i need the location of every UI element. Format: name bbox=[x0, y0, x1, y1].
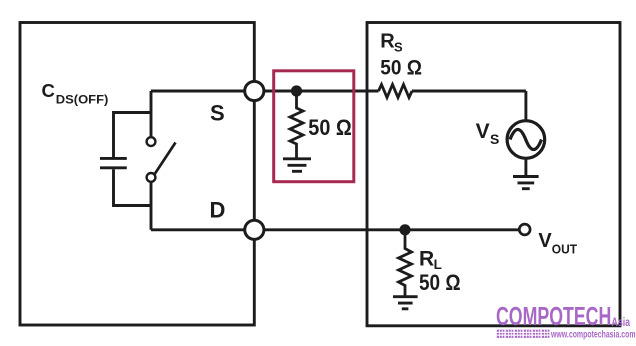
ground (RL) bbox=[393, 297, 418, 309]
wire: capacitor bottom branch bbox=[114, 169, 152, 205]
svg-text:www.compotechasia.com: www.compotechasia.com bbox=[550, 329, 635, 341]
capacitor C_DS(OFF) plates bbox=[100, 158, 127, 167]
resistor RS zigzag bbox=[379, 85, 413, 98]
wire: capacitor top branch bbox=[114, 113, 152, 158]
ground (shunt resistor) bbox=[283, 159, 311, 172]
wire bottom: D node to Vout bbox=[151, 228, 519, 231]
svg-text:R: R bbox=[419, 247, 434, 270]
svg-text:50 Ω: 50 Ω bbox=[308, 115, 352, 140]
wire: Vs vertical drop bbox=[524, 91, 527, 121]
source VS circle bbox=[507, 121, 545, 159]
svg-text:OUT: OUT bbox=[552, 241, 577, 256]
svg-text:S: S bbox=[210, 101, 225, 126]
left box (switch block outline) bbox=[20, 23, 254, 326]
svg-text:50 Ω: 50 Ω bbox=[419, 270, 461, 295]
switch Q1 bottom contact circle bbox=[147, 173, 156, 182]
node S terminal circle bbox=[245, 81, 264, 100]
node D terminal circle bbox=[245, 220, 264, 239]
switch Q1 lever bbox=[155, 143, 176, 175]
svg-text:50 Ω: 50 Ω bbox=[380, 56, 422, 80]
wire: switch bottom stem bbox=[150, 182, 153, 230]
source VS sine wave bbox=[510, 130, 542, 150]
node VOUT open terminal circle bbox=[519, 224, 530, 235]
logo Chinese characters (simulated glyph blocks) bbox=[497, 330, 550, 338]
svg-text:DS(OFF): DS(OFF) bbox=[56, 93, 109, 107]
wire: Vs to ground stem bbox=[524, 158, 527, 176]
svg-text:V: V bbox=[538, 230, 552, 252]
svg-text:S: S bbox=[394, 40, 403, 55]
resistor RL zigzag bbox=[399, 230, 412, 296]
svg-text:V: V bbox=[476, 120, 490, 143]
switch Q1 top contact circle bbox=[147, 137, 156, 146]
svg-text:D: D bbox=[210, 197, 226, 222]
junction dot at RL bbox=[399, 224, 410, 235]
wire: switch top stem bbox=[150, 91, 153, 138]
svg-text:C: C bbox=[42, 80, 55, 101]
svg-text:Asia: Asia bbox=[612, 317, 631, 329]
svg-text:S: S bbox=[490, 131, 499, 147]
right box (source/load block outline) bbox=[367, 23, 620, 326]
svg-text:COMPOTECH: COMPOTECH bbox=[496, 303, 611, 331]
wire top: S node to Vs branch bbox=[151, 90, 526, 93]
resistor 50-ohm shunt (in red box) bbox=[290, 91, 303, 158]
ground (Vs) bbox=[513, 177, 539, 189]
red highlight box bbox=[274, 71, 354, 182]
junction dot at 50-ohm shunt bbox=[291, 85, 302, 96]
